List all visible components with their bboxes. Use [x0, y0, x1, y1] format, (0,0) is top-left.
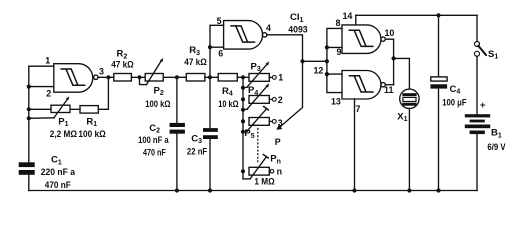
- svg-text:6: 6: [218, 49, 223, 59]
- wire pin9: [327, 46, 342, 48]
- resistor R3: [186, 74, 205, 82]
- wire C4 branch top: [438, 15, 440, 77]
- node junction P1 row: [27, 107, 31, 111]
- svg-text:6/9 V: 6/9 V: [487, 142, 506, 152]
- svg-text:5: 5: [217, 16, 222, 26]
- node junction R2-P2: [137, 75, 141, 79]
- svg-text:1: 1: [45, 55, 50, 65]
- node junction pot bus top: [241, 75, 245, 79]
- wire P1 to R1: [70, 108, 80, 110]
- wire top rail: [356, 14, 477, 16]
- svg-text:47 kΩ: 47 kΩ: [111, 59, 134, 69]
- op-amp U1 nand gate CI1a: [54, 64, 98, 92]
- wire bottom rail: [29, 190, 477, 192]
- node junction pin2: [27, 85, 31, 89]
- wire C3 to rail: [209, 139, 211, 191]
- wire P2 wiper tie: [140, 77, 147, 84]
- svg-text:100 μF: 100 μF: [442, 97, 467, 107]
- node junction wiper: [27, 116, 31, 120]
- svg-text:4093: 4093: [288, 24, 307, 34]
- svg-text:100 nF a: 100 nF a: [138, 135, 169, 145]
- svg-text:n: n: [277, 166, 282, 176]
- wire P5 to contact 3: [269, 120, 272, 122]
- wire C4 to rail: [438, 89, 440, 191]
- svg-text:+: +: [480, 100, 486, 110]
- wire Pn to contact n: [268, 170, 271, 172]
- wire X1 to rail: [408, 109, 410, 191]
- node junction input bus: [325, 59, 329, 63]
- node junction pin9: [325, 45, 329, 49]
- svg-text:3: 3: [99, 67, 104, 77]
- svg-text:P: P: [275, 137, 281, 147]
- svg-text:11: 11: [384, 85, 393, 95]
- wire output pin4: [267, 35, 303, 61]
- svg-text:10 kΩ: 10 kΩ: [218, 99, 239, 109]
- svg-text:8: 8: [336, 18, 341, 28]
- wire P1 left to bus: [29, 108, 51, 110]
- node contact 3: [272, 120, 276, 124]
- svg-text:470 nF: 470 nF: [45, 180, 71, 190]
- wire gate2 pin6: [210, 46, 224, 48]
- wire P4 wiper tie: [243, 108, 248, 111]
- node junction P3 wiper: [241, 86, 245, 90]
- resistor R2: [114, 74, 132, 82]
- svg-text:10: 10: [385, 28, 395, 38]
- wire C3 branch: [209, 77, 211, 128]
- capacitor C4 electrolytic: [430, 77, 447, 89]
- wire gate1 pin2: [29, 86, 54, 88]
- wire pot bus vertical: [242, 77, 244, 179]
- node junction R3-R4-C3-pin6: [208, 75, 212, 79]
- wire left input bus: [28, 66, 30, 162]
- node junction P2-R3-C2: [175, 75, 179, 79]
- wire output 11: [385, 84, 393, 86]
- svg-text:4: 4: [266, 23, 271, 33]
- wire P3 wiper tie: [243, 86, 248, 89]
- svg-text:2,2 MΩ: 2,2 MΩ: [50, 129, 78, 139]
- svg-text:7: 7: [356, 104, 361, 114]
- svg-text:1: 1: [278, 73, 283, 83]
- wire S1 to battery: [476, 56, 478, 114]
- node junction P5 wiper: [241, 130, 245, 134]
- wire gate1 pin1: [29, 65, 54, 67]
- wire P3 to contact 1: [269, 76, 272, 78]
- node junction P4 wiper: [241, 108, 245, 112]
- op-amp U3 nand gate CI1c: [342, 25, 385, 54]
- node junction C4 top rail: [436, 13, 440, 17]
- wire P1 wiper to bus: [29, 117, 55, 120]
- capacitor C3: [203, 128, 218, 139]
- node junction Pn row: [241, 169, 245, 173]
- wire right gates input bus: [327, 28, 342, 92]
- potentiometer P4: [247, 83, 269, 108]
- node junction pin6: [208, 45, 212, 49]
- node junction pin7 rail: [352, 188, 356, 192]
- battery B1: [465, 114, 490, 134]
- wire pin7 ground: [354, 99, 356, 191]
- node junction X1 rail: [407, 188, 411, 192]
- wire C1 to bottom rail: [28, 175, 30, 191]
- op-amp U4 nand gate CI1d: [342, 71, 385, 100]
- node junction pin12: [325, 72, 329, 76]
- node junction C3 rail: [208, 188, 212, 192]
- svg-text:1 MΩ: 1 MΩ: [254, 176, 275, 186]
- wire to right gates: [303, 60, 327, 62]
- node 3 junction: [106, 75, 110, 79]
- wire node3 down to R1: [98, 77, 108, 109]
- wire C2 to rail: [176, 134, 178, 191]
- node contact 1: [272, 76, 276, 80]
- potentiometer Pn: [249, 155, 269, 179]
- svg-text:14: 14: [343, 11, 353, 21]
- node contact n: [270, 170, 274, 174]
- svg-text:470 nF: 470 nF: [143, 147, 166, 157]
- wire gate2 input bus: [210, 25, 224, 77]
- svg-text:100 kΩ: 100 kΩ: [145, 99, 171, 109]
- wire P2 to node C2: [163, 76, 186, 78]
- wire R3 to R4: [205, 76, 218, 78]
- wire P5 wiper tie: [243, 130, 248, 133]
- potentiometer P5: [247, 107, 269, 131]
- capacitor C2: [170, 123, 185, 134]
- wire R4 to pot bus: [237, 76, 249, 78]
- wire C2 branch: [176, 77, 178, 123]
- op-amp U2 nand gate CI1b: [224, 21, 267, 49]
- switch S1: [475, 42, 487, 57]
- node junction C2 rail: [175, 188, 179, 192]
- wire R2 to P2: [131, 76, 145, 78]
- svg-text:22 nF: 22 nF: [187, 147, 208, 157]
- capacitor C1: [19, 162, 35, 175]
- potentiometer P3: [247, 61, 269, 86]
- node junction out10-11: [392, 56, 396, 60]
- node contact 2: [272, 98, 276, 102]
- wire output 10: [385, 39, 393, 85]
- potentiometer P1: [51, 96, 70, 117]
- wire P4 to contact 2: [269, 98, 272, 100]
- resistor R4: [218, 74, 237, 82]
- svg-text:3: 3: [278, 118, 283, 128]
- arrowhead P selector: [276, 124, 282, 130]
- node junction P4 row: [241, 97, 245, 101]
- potentiometer P2: [145, 58, 163, 85]
- svg-text:9: 9: [337, 47, 342, 57]
- svg-text:2: 2: [46, 89, 51, 99]
- svg-text:2: 2: [278, 95, 283, 105]
- svg-text:13: 13: [331, 96, 341, 106]
- svg-text:47 kΩ: 47 kΩ: [184, 57, 207, 67]
- wire pin12: [327, 73, 342, 75]
- node junction C4 rail: [436, 188, 440, 192]
- svg-text:220 nF a: 220 nF a: [41, 167, 76, 177]
- transducer X1: [400, 89, 419, 108]
- svg-text:100 kΩ: 100 kΩ: [78, 129, 106, 139]
- wire dotted continuation: [257, 129, 259, 164]
- wire right branch to S1: [476, 15, 478, 41]
- node junction out4: [300, 59, 304, 63]
- wire P selector arm: [279, 61, 303, 128]
- wire Pn wiper tie: [243, 178, 250, 180]
- resistor R1: [80, 106, 98, 114]
- wire pin14 riser: [355, 15, 357, 25]
- wire output pin3: [98, 76, 114, 78]
- wire to X1: [394, 58, 410, 89]
- svg-text:12: 12: [314, 65, 324, 75]
- wire battery to rail: [476, 134, 478, 190]
- node junction P5 row: [241, 119, 245, 123]
